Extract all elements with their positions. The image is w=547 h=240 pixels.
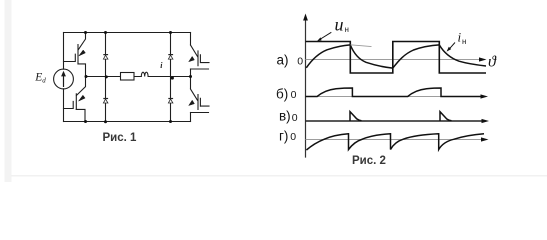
wire top rail bbox=[64, 32, 191, 34]
plot g: curve bbox=[306, 134, 484, 150]
page background bbox=[0, 0, 547, 182]
transistor VT1 arrow bbox=[79, 50, 86, 56]
inductor load coil bbox=[141, 72, 148, 76]
node bottom of VD4 bbox=[169, 120, 172, 123]
transistor VT3 body bbox=[191, 45, 210, 66]
diode VD3 bbox=[168, 55, 173, 60]
axis vertical shared bbox=[305, 19, 307, 158]
plot a: square wave u bbox=[306, 42, 487, 74]
node top of VD3 bbox=[169, 31, 172, 34]
svg-text:в): в) bbox=[279, 108, 291, 123]
svg-text:i: i bbox=[458, 30, 462, 45]
plot g: axis bbox=[306, 139, 482, 141]
node mid VD3 bbox=[171, 76, 174, 79]
svg-text:н: н bbox=[462, 37, 466, 46]
plot a: current curve i bbox=[306, 45, 486, 68]
plot b: axis bbox=[306, 96, 481, 98]
svg-text:а): а) bbox=[277, 53, 289, 68]
wire right rail lower bbox=[190, 113, 192, 122]
plot a: axis zero line bbox=[306, 59, 480, 61]
wire right diode leg bbox=[170, 33, 172, 122]
svg-text:0: 0 bbox=[292, 112, 298, 124]
svg-text:Рис. 2: Рис. 2 bbox=[352, 155, 386, 167]
svg-text:0: 0 bbox=[291, 89, 297, 101]
transistor VT1 emitter lead bbox=[78, 64, 86, 77]
left gray sidebar bar bbox=[5, 0, 12, 182]
plot v: spike 1 bbox=[350, 112, 362, 121]
transistor VT2 gate bbox=[64, 94, 77, 110]
plot v: spike 2 bbox=[440, 112, 452, 121]
source Ed arrow bbox=[61, 71, 66, 87]
node bottom of VD2 bbox=[104, 120, 107, 123]
svg-text:н: н bbox=[345, 25, 349, 34]
transistor VT3 emitter lead bbox=[191, 68, 209, 70]
transistor VT2 emitter lead bbox=[76, 109, 85, 121]
transistor VT3 arrow bbox=[189, 56, 195, 61]
svg-text:Рис. 1: Рис. 1 bbox=[103, 132, 138, 144]
transistor VT2 collector lead bbox=[77, 77, 86, 96]
plot a: annotation gray leader bbox=[351, 45, 372, 47]
load wire middle bbox=[86, 76, 191, 78]
plot a: i_n annotation arrow bbox=[449, 43, 455, 49]
node top of VT1 bbox=[84, 31, 87, 34]
node bottom of VT2 bbox=[84, 120, 87, 123]
node top of VD1 bbox=[104, 31, 107, 34]
node mid right bbox=[189, 75, 192, 78]
transistor VT2 arrow bbox=[79, 95, 86, 101]
diode VD1 bbox=[103, 55, 108, 60]
transistor VT4 emitter lead bbox=[191, 112, 209, 114]
wire left diode leg bbox=[105, 33, 107, 122]
svg-text:г): г) bbox=[279, 128, 288, 143]
transistor VT4 body bbox=[191, 89, 210, 110]
wire right rail middle bbox=[190, 69, 192, 89]
transistor VT4 arrow bbox=[189, 100, 195, 105]
bottom faint rule bbox=[11, 175, 547, 177]
source Ed circle bbox=[54, 69, 74, 89]
transistor VT1 gate bbox=[64, 45, 79, 64]
diode VD2 bbox=[103, 99, 108, 104]
node mid VD1 bbox=[105, 75, 108, 78]
node junction dots bbox=[84, 31, 192, 123]
plot a: u_n annotation arrow bbox=[320, 32, 331, 39]
transistor VT1 collector lead bbox=[78, 33, 85, 50]
resistor load bbox=[121, 73, 135, 81]
svg-text:u: u bbox=[335, 15, 344, 35]
svg-text:0: 0 bbox=[290, 131, 296, 143]
wire left rail upper bbox=[63, 33, 65, 70]
plot b: waveform bbox=[306, 88, 482, 97]
svg-text:ϑ: ϑ bbox=[488, 54, 497, 71]
plot v: axis bbox=[306, 120, 484, 122]
wire right rail upper bbox=[190, 33, 192, 46]
wire bottom rail bbox=[64, 121, 191, 123]
svg-text:0: 0 bbox=[297, 55, 303, 67]
wire left rail lower bbox=[63, 89, 65, 122]
node mid left bbox=[85, 75, 88, 78]
svg-text:б): б) bbox=[276, 86, 288, 101]
diode VD4 bbox=[168, 99, 173, 104]
